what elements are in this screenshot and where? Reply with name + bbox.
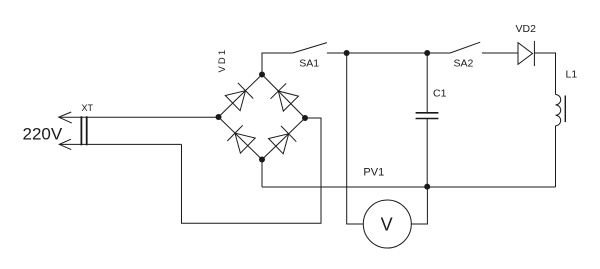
wire C1 node to SA2 (427, 52, 450, 54)
node SA1 output (344, 50, 350, 56)
bridge VD1 arms (219, 75, 306, 160)
wire upper supply (59, 116, 219, 118)
svg-text:VD1: VD1 (217, 48, 228, 73)
node bridge left (216, 114, 222, 120)
wire top rail to C1 node (347, 52, 428, 54)
wire right rail down (555, 126, 557, 187)
svg-text:SA2: SA2 (454, 57, 474, 69)
switch SA1 (293, 43, 327, 53)
svg-text:L1: L1 (566, 69, 578, 81)
wire SA2 to VD2 (482, 52, 518, 54)
core L1 (564, 96, 566, 123)
voltmeter PV1 (363, 200, 411, 248)
wire lower loop to bridge right node (182, 118, 322, 223)
svg-text:V: V (381, 215, 393, 235)
arrow upper supply (59, 112, 72, 123)
wire lower supply (59, 143, 181, 145)
wire bottom rail (262, 186, 556, 188)
svg-text:PV1: PV1 (363, 167, 384, 179)
diode VD2 (518, 43, 533, 65)
wire SA1 to node (327, 52, 347, 54)
connector XT (80, 116, 82, 145)
node bridge top (259, 72, 265, 78)
wire bottom rail to bridge bottom (261, 160, 263, 188)
node bridge right (302, 115, 308, 121)
diode VD1.4 (bottom-to-right arm) (269, 134, 289, 154)
capacitor C1 plates (416, 112, 439, 114)
inductor L1 (556, 95, 561, 126)
node C1 bottom (424, 184, 430, 190)
wire PV1 right branch (411, 187, 427, 224)
svg-text:220V: 220V (23, 125, 63, 144)
switch SA2 (450, 42, 480, 53)
svg-text:C1: C1 (433, 88, 447, 100)
wire PV1 left branch (347, 53, 364, 224)
wire VD2 to right rail (534, 53, 555, 95)
diode VD1.2 (right-to-top arm) (278, 91, 298, 111)
svg-text:VD2: VD2 (516, 23, 537, 35)
capacitor C1 branch wire top (426, 53, 428, 113)
svg-text:XT: XT (82, 103, 94, 113)
diode VD1.1 (left-to-top arm) (225, 91, 245, 111)
diode VD1.3 (bottom-to-left arm) (235, 133, 255, 153)
arrow lower supply (59, 139, 71, 149)
node bridge bottom (259, 157, 265, 163)
capacitor C1 branch wire bottom (426, 119, 428, 187)
wire bridge top to rail (262, 53, 293, 75)
node C1 top (424, 50, 430, 56)
svg-text:SA1: SA1 (299, 57, 319, 69)
